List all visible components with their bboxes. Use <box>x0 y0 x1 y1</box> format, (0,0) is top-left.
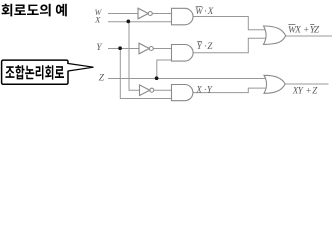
gate label X·Y <box>195 84 213 94</box>
wire OR2 output <box>285 83 329 85</box>
OR gate G5 (bottom output) <box>264 75 285 93</box>
svg-text:Z: Z <box>314 26 320 36</box>
gate label Y'·Z <box>197 41 214 51</box>
wire Y input <box>108 48 140 50</box>
svg-text:·: · <box>204 6 206 16</box>
svg-text:+: + <box>303 26 309 36</box>
AND gate G3 (X·Y) <box>172 85 193 101</box>
inverter U3 (X) <box>140 85 150 96</box>
wire OR1 output <box>286 35 332 37</box>
gate label W'·X <box>195 6 213 16</box>
svg-text:X: X <box>294 26 302 36</box>
output label XY+Z <box>292 85 319 96</box>
AND gate G1 (W'·X) <box>172 8 194 25</box>
wire Z input into OR2 <box>108 78 267 80</box>
wire Y drop to AND3 lower input <box>120 49 171 99</box>
svg-text:·: · <box>204 41 206 51</box>
inverter U1 (W) <box>138 8 148 19</box>
AND gate G2 (Y'·Z) <box>172 45 194 62</box>
wire W input <box>108 13 139 15</box>
junction dot on X wire <box>126 20 130 24</box>
output label W'X+Y'Z <box>288 24 320 35</box>
svg-text:X: X <box>207 6 214 16</box>
svg-text:X: X <box>94 14 101 24</box>
OR gate G4 (top output) <box>264 26 286 44</box>
svg-text:X: X <box>195 84 202 94</box>
title 회로도의 예 <box>2 4 67 17</box>
wire AND3 output to OR2 bottom input <box>193 88 267 93</box>
svg-text:Z: Z <box>99 73 105 83</box>
wire AND2 output to OR1 bottom input <box>193 38 267 53</box>
callout box 조합논리회로 <box>2 60 94 84</box>
wire inverter U2 output <box>153 48 171 50</box>
svg-text:+: + <box>305 86 311 96</box>
wire X vertical drop to bottom inverter U3 <box>129 22 140 91</box>
wire inverter U3 output <box>154 89 172 91</box>
wire AND1 output to OR1 top input <box>193 17 267 30</box>
junction dot on Y wire <box>118 46 122 50</box>
wire Z riser to AND2 lower input <box>157 60 172 79</box>
wire X input into AND1 <box>108 21 172 23</box>
junction dot on Z wire <box>155 76 159 80</box>
inverter U2 (Y) <box>139 43 149 54</box>
wire inverter U1 output <box>152 13 171 15</box>
